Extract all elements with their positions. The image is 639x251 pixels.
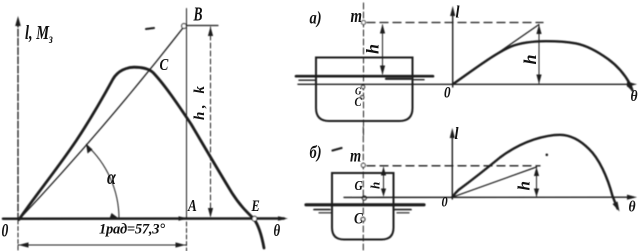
svg-text:0: 0 <box>2 219 9 241</box>
svg-text:h: h <box>515 181 534 190</box>
svg-text:G: G <box>355 178 363 193</box>
svg-text:h: h <box>520 54 540 64</box>
svg-text:а): а) <box>310 8 322 28</box>
svg-text:m: m <box>350 145 361 166</box>
svg-text:б): б) <box>310 143 322 163</box>
svg-text:C: C <box>354 211 363 228</box>
svg-text:l: l <box>455 125 460 143</box>
svg-text:0: 0 <box>444 84 451 102</box>
svg-text:θ: θ <box>629 199 636 216</box>
svg-text:m: m <box>351 5 363 26</box>
svg-text:l, Mз: l, Mз <box>25 22 53 46</box>
svg-text:l: l <box>456 3 461 21</box>
svg-text:θ: θ <box>631 88 638 105</box>
svg-text:C: C <box>355 95 362 109</box>
svg-text:h: h <box>363 44 383 54</box>
svg-text:A: A <box>187 196 197 215</box>
svg-text:h: h <box>368 182 383 189</box>
svg-text:C: C <box>160 55 169 74</box>
svg-text:E: E <box>251 198 260 216</box>
svg-text:B: B <box>193 3 203 25</box>
svg-text:θ: θ <box>274 223 281 241</box>
svg-text:1рад=57,3°: 1рад=57,3° <box>99 222 165 238</box>
svg-text:α: α <box>107 166 117 188</box>
svg-text:0: 0 <box>442 194 448 210</box>
